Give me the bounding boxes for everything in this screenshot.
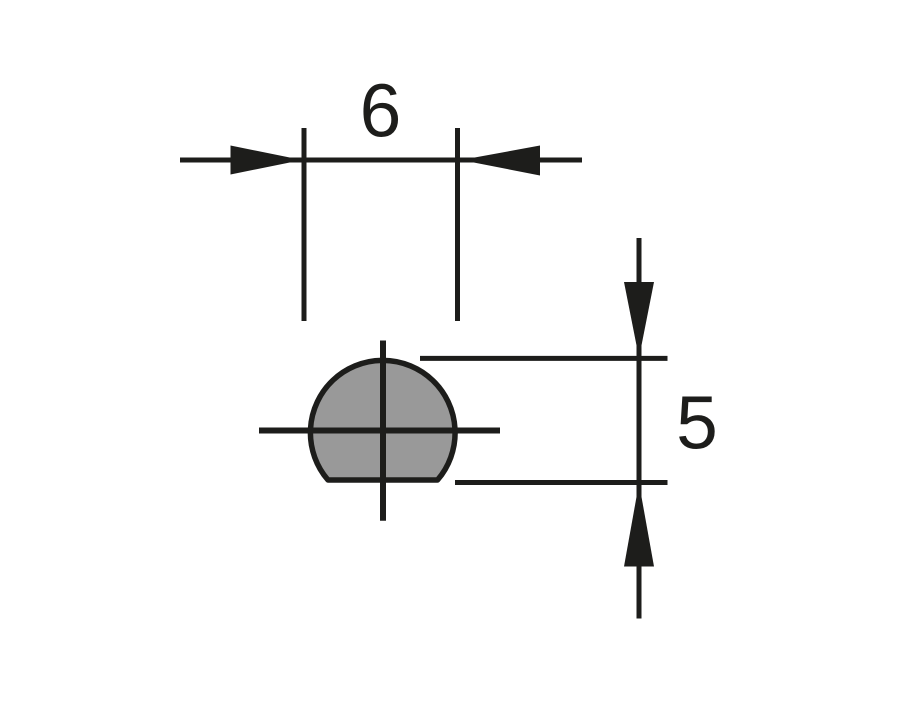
svg-text:6: 6 (360, 69, 402, 153)
svg-text:5: 5 (676, 381, 718, 465)
